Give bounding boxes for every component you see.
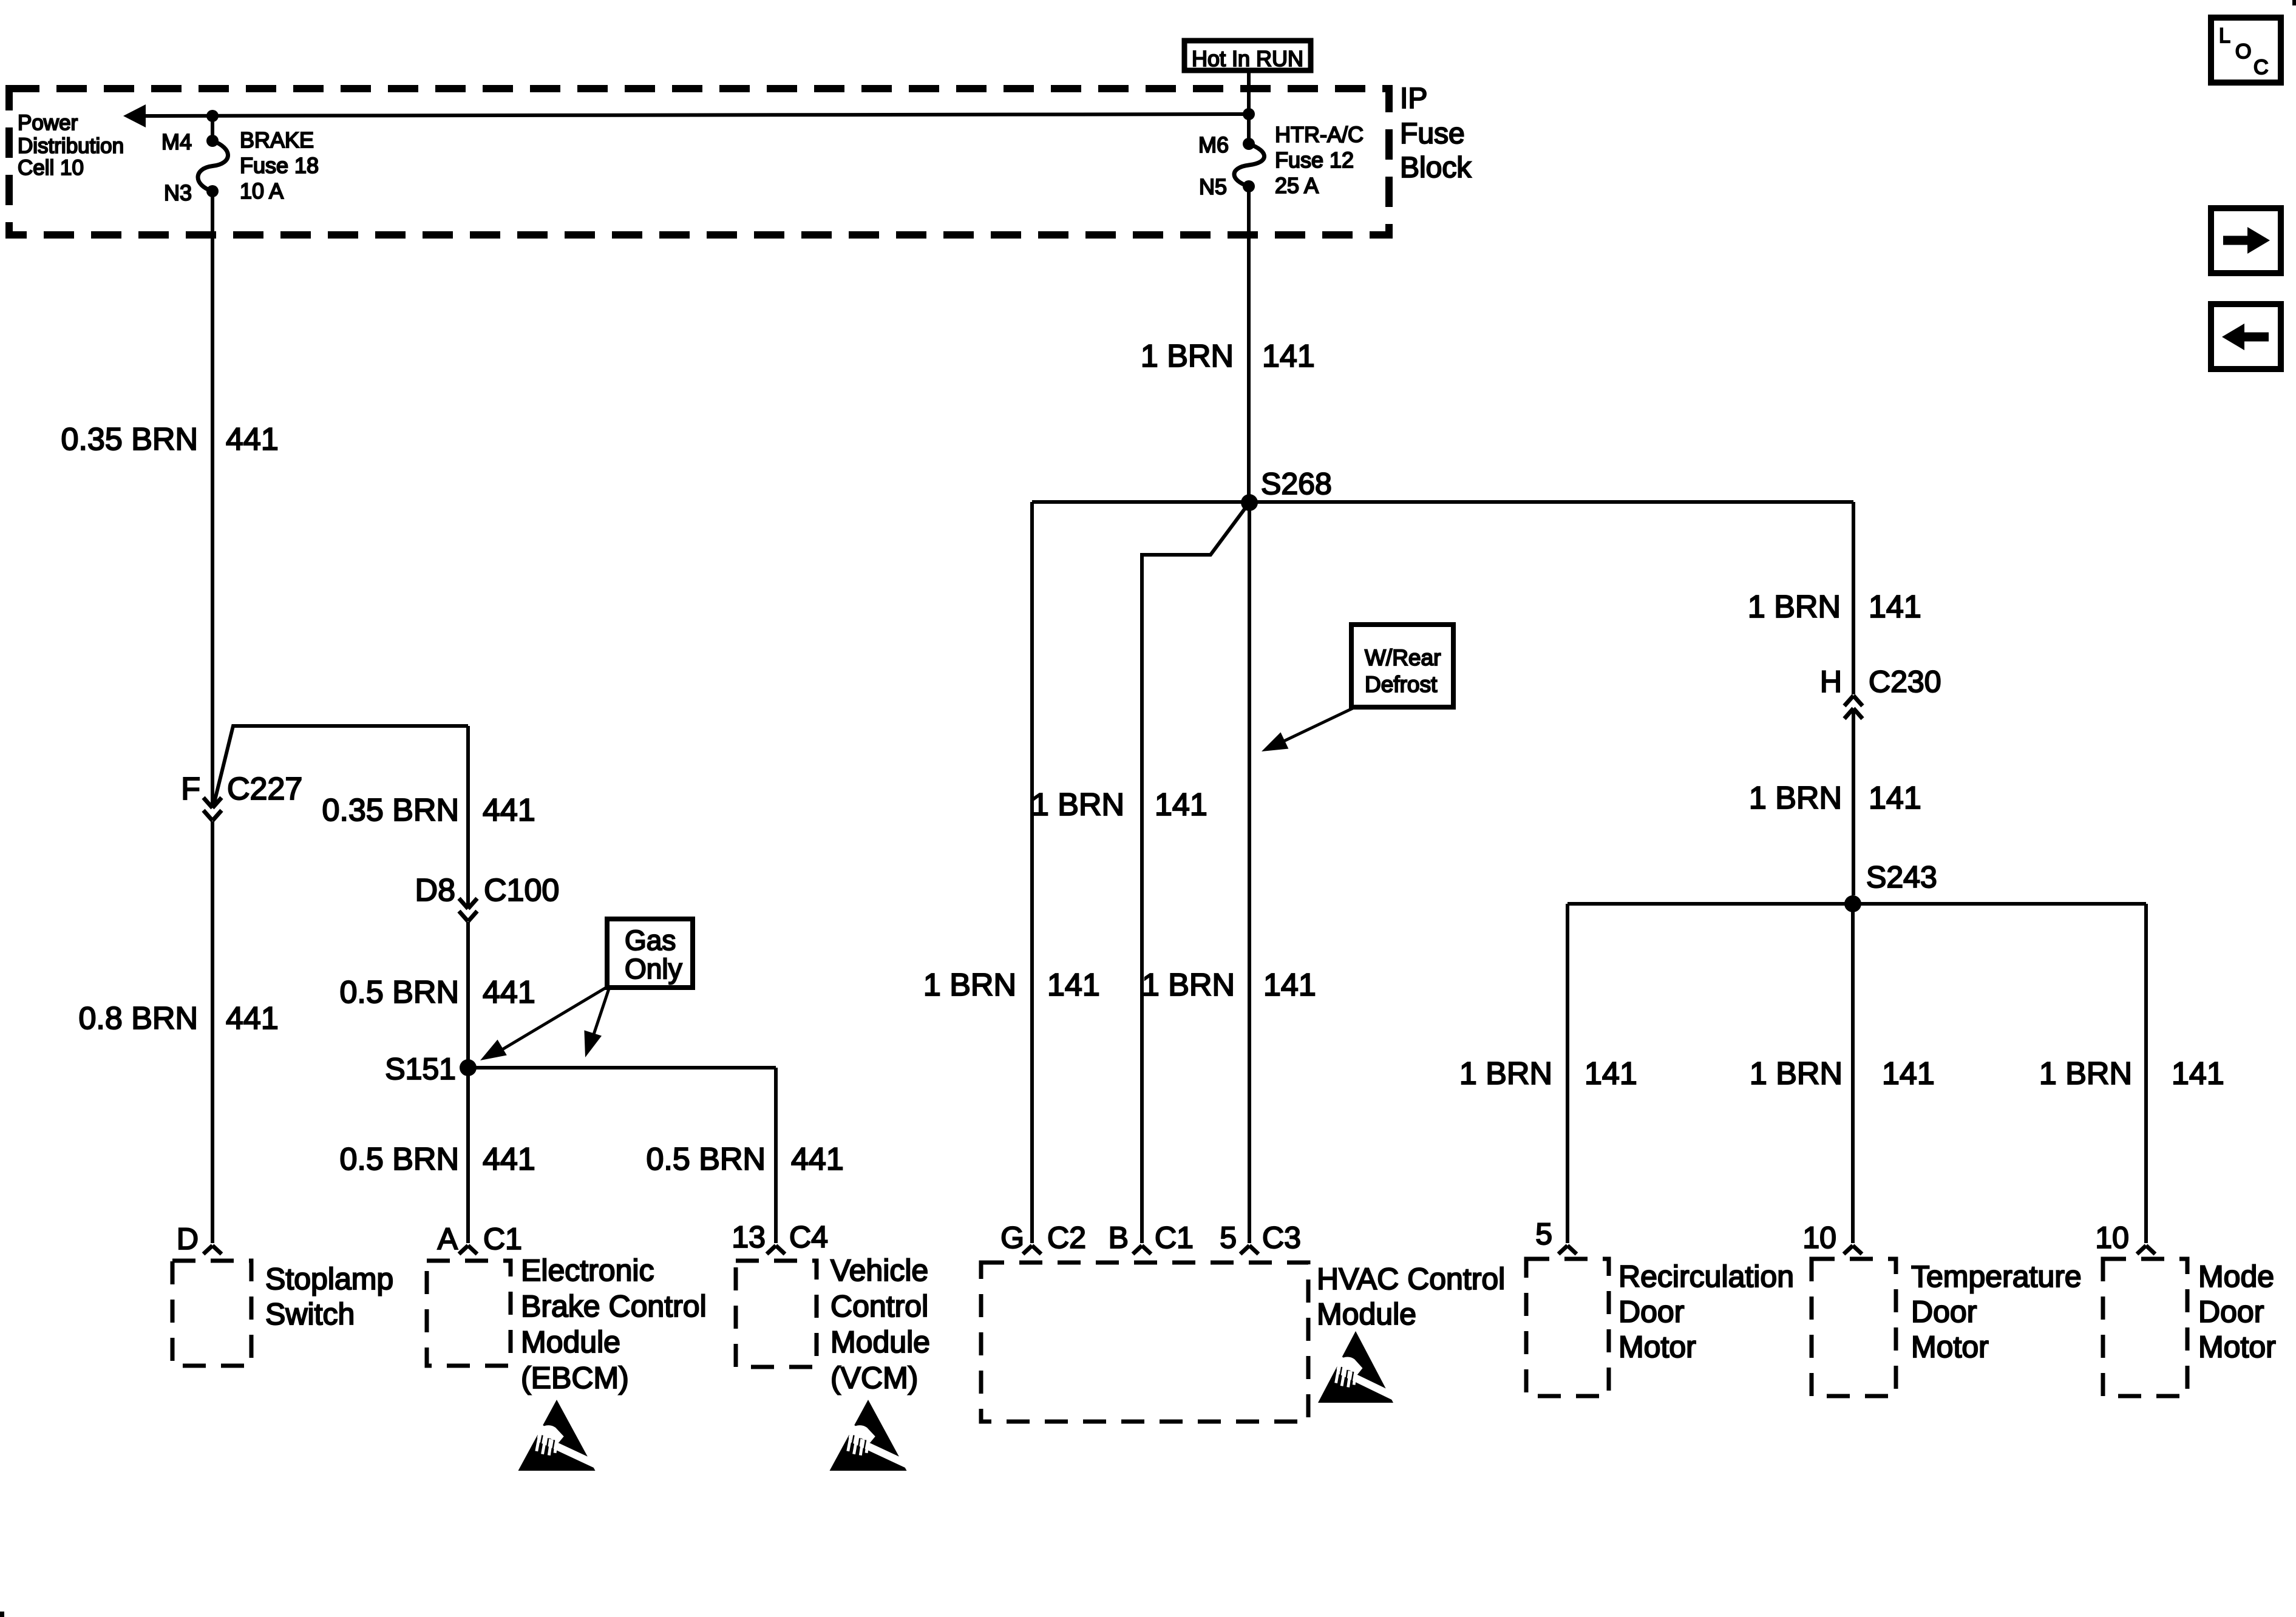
svg-text:F: F: [181, 771, 200, 807]
svg-text:141: 141: [1869, 781, 1921, 816]
svg-text:141: 141: [1263, 968, 1316, 1003]
svg-text:1 BRN: 1 BRN: [2039, 1056, 2132, 1091]
svg-text:Door: Door: [2198, 1295, 2264, 1329]
svg-text:441: 441: [483, 975, 535, 1010]
svg-text:C4: C4: [789, 1220, 828, 1254]
svg-text:IP: IP: [1400, 83, 1427, 115]
svg-text:141: 141: [1262, 339, 1315, 374]
svg-text:10: 10: [1802, 1221, 1836, 1255]
svg-text:S243: S243: [1866, 860, 1937, 894]
svg-text:Power: Power: [18, 111, 78, 135]
svg-text:0.8 BRN: 0.8 BRN: [78, 1001, 198, 1036]
svg-text:L: L: [2219, 24, 2230, 47]
svg-text:C100: C100: [484, 873, 559, 908]
svg-text:W/Rear: W/Rear: [1365, 645, 1441, 670]
svg-text:S151: S151: [385, 1052, 456, 1086]
svg-text:(VCM): (VCM): [830, 1361, 918, 1395]
svg-text:1 BRN: 1 BRN: [1749, 781, 1842, 816]
svg-text:Fuse 12: Fuse 12: [1275, 147, 1354, 172]
svg-text:Control: Control: [830, 1289, 928, 1323]
svg-text:C3: C3: [1262, 1221, 1301, 1255]
svg-text:Electronic: Electronic: [521, 1253, 654, 1287]
svg-text:Mode: Mode: [2198, 1259, 2274, 1293]
svg-text:C2: C2: [1047, 1221, 1086, 1255]
svg-text:C1: C1: [1155, 1221, 1194, 1255]
svg-text:141: 141: [2172, 1056, 2224, 1091]
svg-text:Brake Control: Brake Control: [521, 1289, 707, 1323]
svg-text:HVAC Control: HVAC Control: [1317, 1262, 1505, 1296]
svg-text:141: 141: [1047, 968, 1100, 1003]
svg-text:C230: C230: [1869, 665, 1941, 699]
svg-text:O: O: [2235, 40, 2251, 63]
svg-text:S268: S268: [1261, 467, 1332, 501]
svg-text:G: G: [1000, 1221, 1024, 1255]
svg-text:M6: M6: [1198, 132, 1229, 157]
svg-text:1 BRN: 1 BRN: [1031, 787, 1124, 822]
svg-text:N5: N5: [1199, 174, 1227, 199]
svg-text:Block: Block: [1400, 152, 1472, 184]
svg-text:D: D: [177, 1222, 199, 1256]
svg-text:H: H: [1820, 665, 1842, 699]
svg-text:B: B: [1109, 1221, 1129, 1255]
svg-text:(EBCM): (EBCM): [521, 1361, 629, 1395]
svg-text:1 BRN: 1 BRN: [1748, 589, 1841, 625]
svg-text:C227: C227: [227, 771, 302, 807]
svg-text:Vehicle: Vehicle: [830, 1253, 928, 1287]
svg-text:D8: D8: [415, 873, 455, 908]
svg-text:Stoplamp: Stoplamp: [265, 1262, 393, 1296]
svg-text:Motor: Motor: [1911, 1330, 1989, 1364]
svg-text:141: 141: [1882, 1056, 1935, 1091]
svg-text:Motor: Motor: [2198, 1330, 2276, 1364]
svg-text:C1: C1: [483, 1222, 522, 1256]
svg-text:Recirculation: Recirculation: [1618, 1259, 1794, 1293]
svg-text:HTR-A/C: HTR-A/C: [1275, 122, 1364, 147]
svg-text:0.35 BRN: 0.35 BRN: [322, 793, 459, 828]
svg-text:441: 441: [226, 1001, 279, 1036]
svg-text:Temperature: Temperature: [1911, 1259, 2082, 1293]
svg-text:10: 10: [2095, 1221, 2129, 1255]
svg-text:1 BRN: 1 BRN: [923, 968, 1016, 1003]
svg-text:1 BRN: 1 BRN: [1459, 1056, 1552, 1091]
svg-text:1 BRN: 1 BRN: [1142, 968, 1235, 1003]
svg-text:N3: N3: [164, 180, 192, 205]
svg-text:441: 441: [483, 1142, 535, 1177]
svg-text:Fuse: Fuse: [1400, 118, 1465, 150]
svg-text:Distribution: Distribution: [18, 134, 124, 158]
svg-text:0.35 BRN: 0.35 BRN: [61, 422, 198, 457]
svg-text:0.5 BRN: 0.5 BRN: [339, 1142, 459, 1177]
svg-text:Module: Module: [830, 1325, 930, 1359]
svg-text:Switch: Switch: [265, 1297, 355, 1331]
svg-text:Cell 10: Cell 10: [18, 156, 84, 180]
svg-text:Only: Only: [625, 953, 682, 985]
svg-text:M4: M4: [161, 129, 192, 154]
svg-text:Door: Door: [1911, 1295, 1977, 1329]
svg-text:0.5 BRN: 0.5 BRN: [339, 975, 459, 1010]
svg-text:0.5 BRN: 0.5 BRN: [646, 1142, 766, 1177]
svg-text:141: 141: [1584, 1056, 1637, 1091]
svg-text:141: 141: [1155, 787, 1207, 822]
svg-text:Motor: Motor: [1618, 1330, 1696, 1364]
svg-text:441: 441: [483, 793, 535, 828]
svg-text:Fuse 18: Fuse 18: [240, 153, 319, 178]
svg-text:Defrost: Defrost: [1365, 672, 1438, 697]
svg-text:25 A: 25 A: [1275, 173, 1319, 198]
svg-text:141: 141: [1869, 589, 1921, 625]
svg-text:A: A: [438, 1222, 458, 1256]
svg-text:Gas: Gas: [625, 924, 676, 956]
svg-text:13: 13: [732, 1220, 766, 1254]
svg-text:441: 441: [791, 1142, 844, 1177]
svg-text:1 BRN: 1 BRN: [1750, 1056, 1843, 1091]
svg-text:C: C: [2254, 56, 2269, 79]
svg-text:Door: Door: [1618, 1295, 1684, 1329]
svg-text:441: 441: [226, 422, 279, 457]
svg-text:5: 5: [1220, 1221, 1237, 1255]
svg-text:Hot In RUN: Hot In RUN: [1192, 46, 1303, 71]
svg-text:Module: Module: [1317, 1297, 1416, 1331]
svg-text:5: 5: [1535, 1217, 1552, 1251]
svg-text:BRAKE: BRAKE: [240, 127, 314, 152]
svg-text:Module: Module: [521, 1325, 620, 1359]
svg-text:10 A: 10 A: [240, 178, 284, 203]
svg-text:1 BRN: 1 BRN: [1141, 339, 1234, 374]
